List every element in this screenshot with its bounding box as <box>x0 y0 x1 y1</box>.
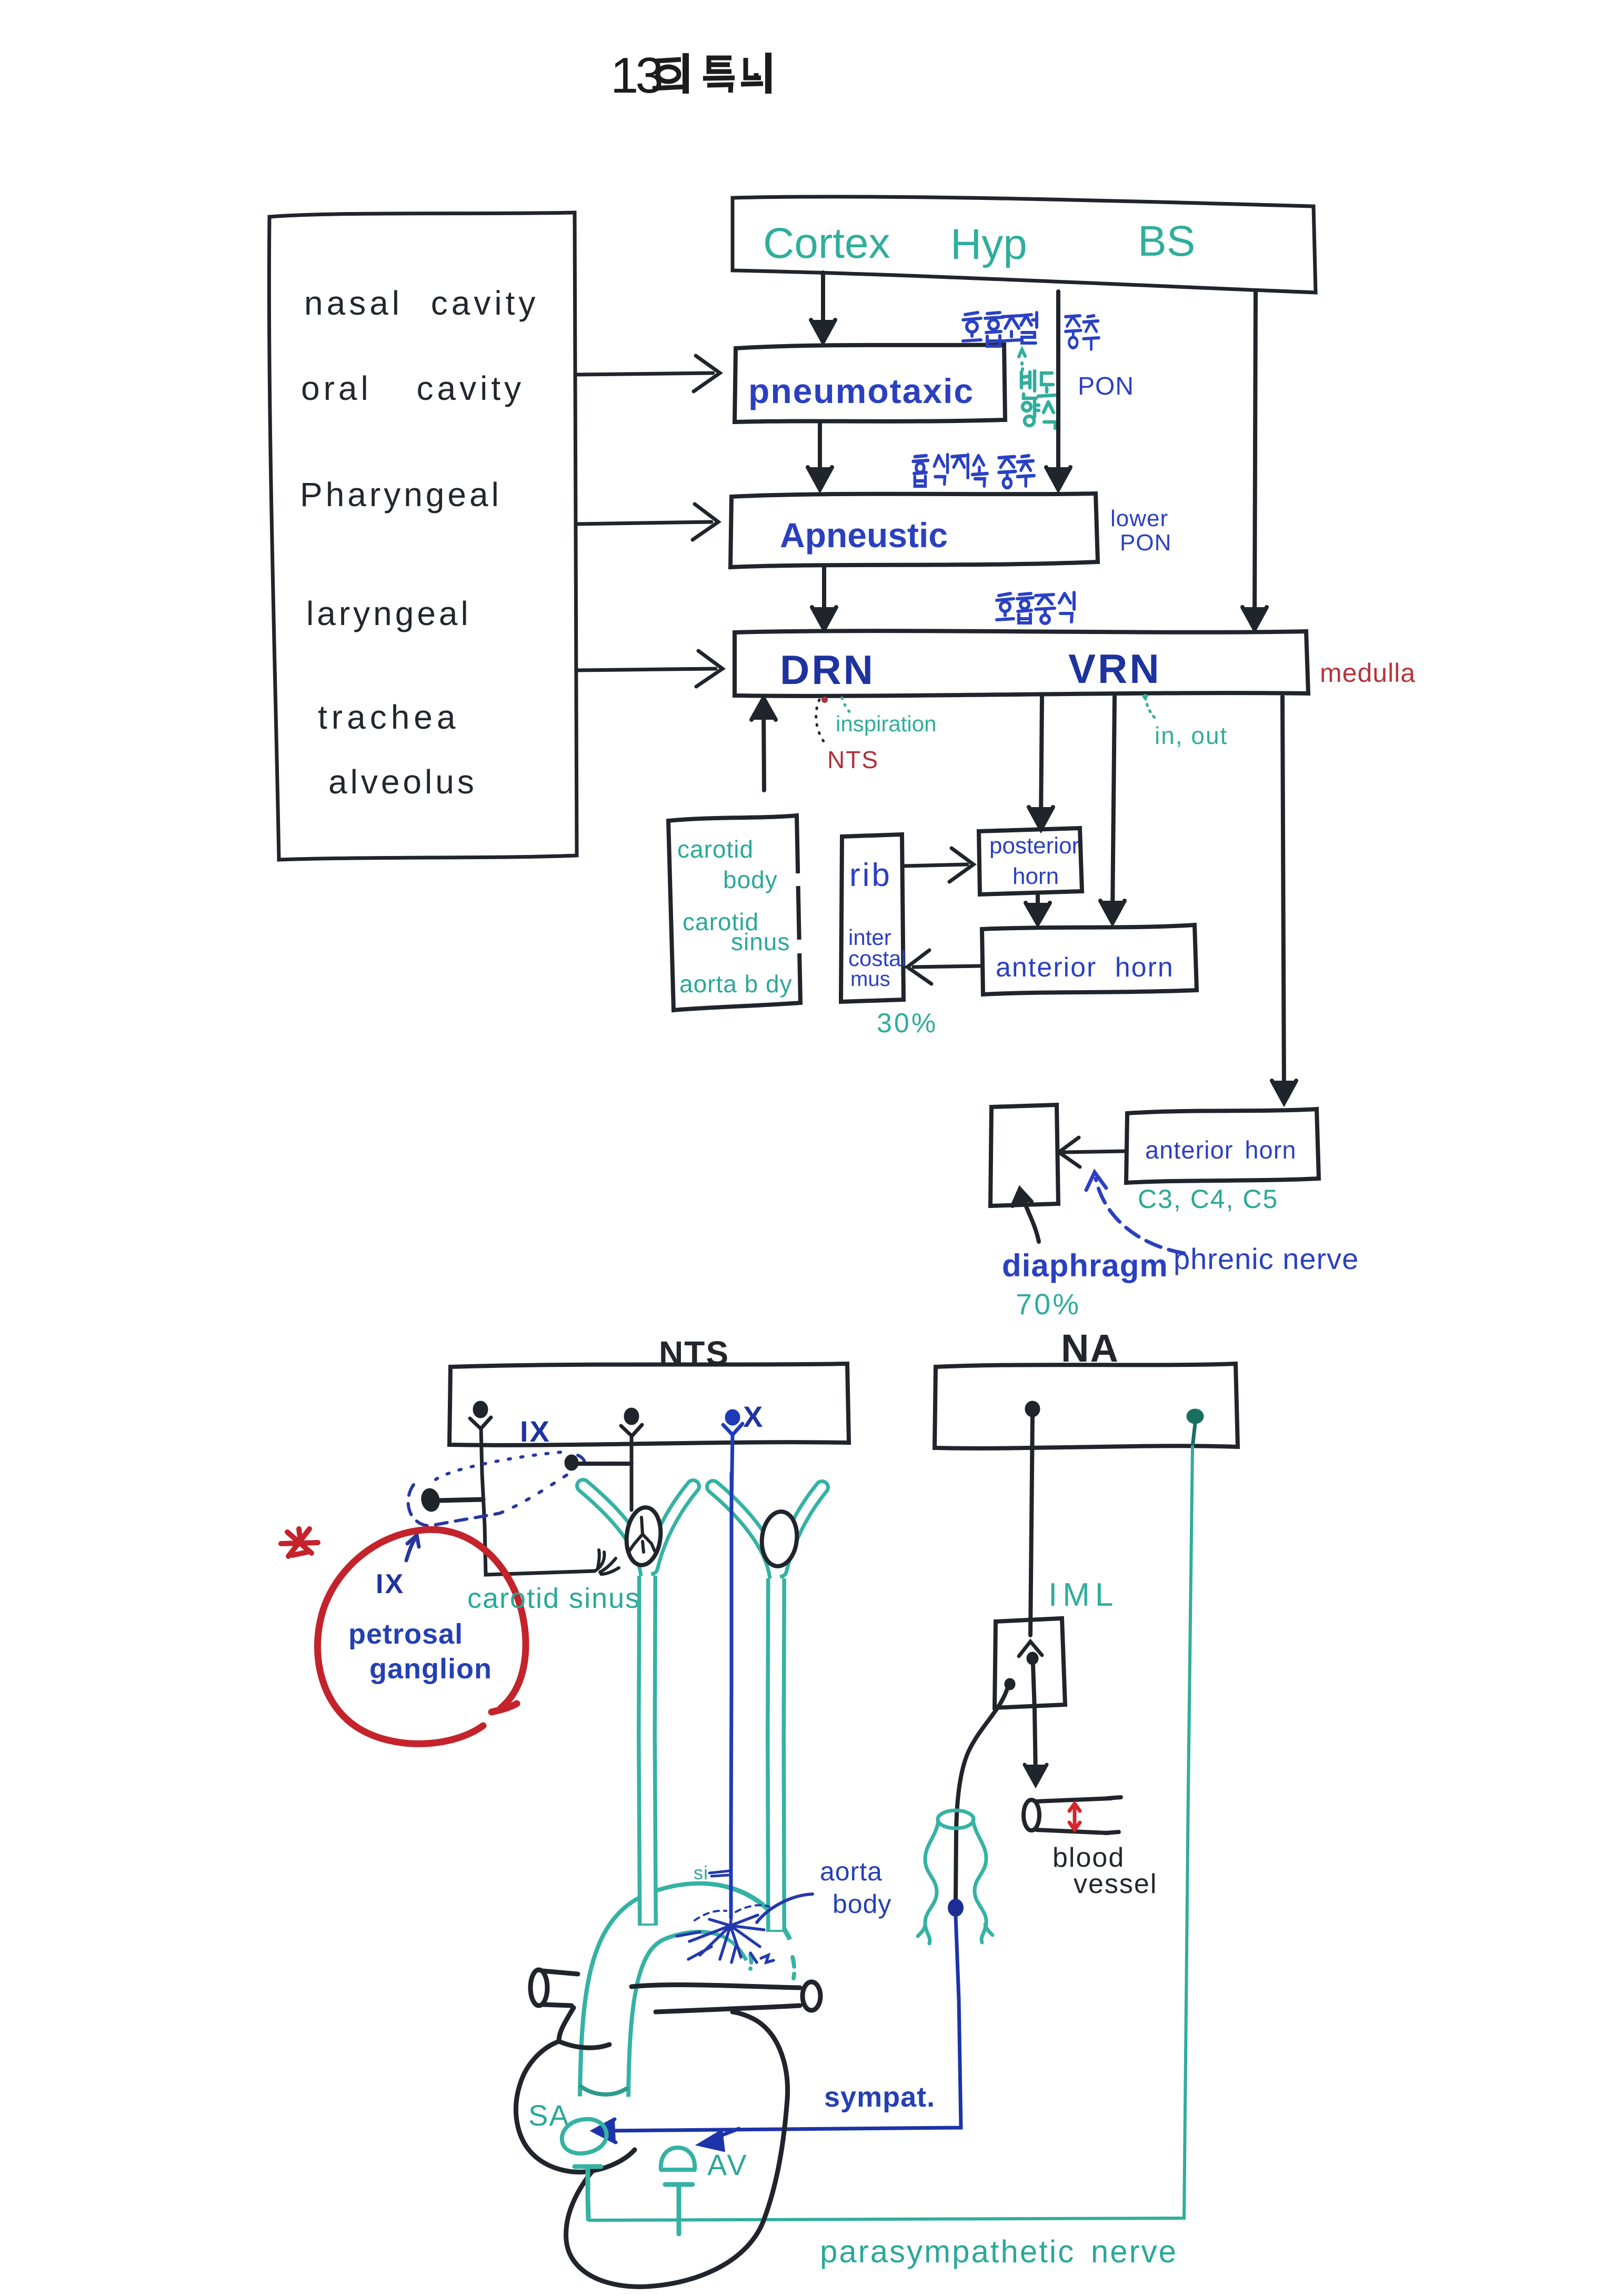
svg-text:VRN: VRN <box>1068 646 1161 692</box>
svg-text:PON: PON <box>1078 372 1134 400</box>
box: pneumotaxic <box>735 345 1005 422</box>
box: Cortex/Hyp/BS <box>733 197 1316 293</box>
teal parasympathetic descending line <box>589 1447 1192 2220</box>
blue ganglion dot on chain <box>948 1899 964 1917</box>
svg-text:laryngeal: laryngeal <box>306 595 472 632</box>
box: NTS <box>449 1364 849 1445</box>
dashes continuing descending aorta <box>750 1955 794 1978</box>
svg-text:aorta: aorta <box>820 1857 883 1886</box>
hangul 회 <box>653 53 686 94</box>
arrow: posterior to anterior horn <box>1026 894 1050 924</box>
box: posterior horn <box>979 828 1082 894</box>
teal sympathetic chain (beaded tube) <box>918 1810 993 1943</box>
label: 양식 (teal korean) <box>1022 401 1058 428</box>
label: 빈도 (teal korean) <box>1021 371 1056 398</box>
svg-text:Hyp: Hyp <box>950 220 1027 268</box>
arrow: left box to Apneustic <box>577 504 718 540</box>
box: NA <box>935 1364 1238 1448</box>
red star <box>281 1529 318 1556</box>
right carotid artery (teal tube) <box>713 1487 822 1932</box>
arrow: BS to VRN box <box>1242 293 1267 629</box>
label: 호흡중식 (blue korean) above DRN <box>997 592 1074 623</box>
arrow: Hyp to Apneustic <box>1046 291 1070 489</box>
svg-text:mus: mus <box>850 968 890 991</box>
arrow: Apneustic to DRN <box>812 567 836 629</box>
svg-text:trachea: trachea <box>318 698 459 736</box>
svg-text:horn: horn <box>1013 863 1059 889</box>
box: diaphragm (empty) <box>990 1105 1058 1206</box>
svg-text:oral cavity: oral cavity <box>301 369 525 407</box>
box: carotid body/sinus/aorta list <box>668 815 800 1010</box>
AV dome + text <box>661 2148 695 2170</box>
arrow: pneumotaxic to Apneustic <box>808 422 832 489</box>
svg-text:anterior horn: anterior horn <box>996 952 1174 983</box>
dashed blue ellipse (IX nerve loop) <box>408 1452 585 1526</box>
box: DRN / VRN (medulla) <box>735 631 1308 696</box>
blue pointer arrow from label to ganglion <box>406 1535 419 1560</box>
svg-text:anterior horn: anterior horn <box>1145 1136 1297 1164</box>
box: rib / intercostal mus <box>841 834 904 1002</box>
svg-text:13: 13 <box>610 47 661 104</box>
arrow: VRN to posterior horn <box>1029 697 1053 829</box>
svg-text:si: si <box>694 1862 708 1884</box>
svg-text:IX: IX <box>520 1415 551 1448</box>
IML inner neuron (arrowhead + dot + axon down) <box>1019 1642 1047 1785</box>
svg-text:PON: PON <box>1120 530 1171 556</box>
arrow: Cortex to pneumotaxic <box>811 273 835 342</box>
svg-text:DRN: DRN <box>780 647 875 693</box>
svg-text:petrosal: petrosal <box>348 1618 463 1650</box>
heart outline (black) <box>516 2008 787 2287</box>
svg-text:alveolus: alveolus <box>328 763 477 801</box>
line: VRN to lower anterior horn <box>1272 697 1296 1103</box>
arrow: diaphragm label up into box <box>1013 1189 1039 1242</box>
aorta tube end arc <box>581 2087 626 2094</box>
svg-text:phrenic nerve: phrenic nerve <box>1174 1242 1359 1275</box>
arrow: rib to posterior horn <box>904 848 974 882</box>
svg-text:carotid sinus: carotid sinus <box>467 1583 640 1614</box>
svg-text:Cortex: Cortex <box>763 219 890 267</box>
dashed teal pointer + inspiration <box>842 698 854 716</box>
black oval: carotid body left (with nerve ending) <box>624 1472 663 1567</box>
black blob (petrosal ganglion) <box>419 1487 483 1513</box>
neuron 2 in NTS <box>621 1409 642 1510</box>
teal dotted tick <box>1019 349 1025 370</box>
black oval: carotid body right (empty) <box>759 1510 800 1568</box>
aortic arch (teal hollow band) <box>604 1908 769 2099</box>
svg-text:sinus: sinus <box>731 928 790 955</box>
svg-text:SA: SA <box>528 2099 570 2132</box>
svg-text:aorta b dy: aorta b dy <box>679 970 793 998</box>
label: 호흡조절 (blue korean) <box>963 313 1037 346</box>
vagus nerve X descending (blue) <box>731 1473 731 1918</box>
svg-text:Pharyngeal: Pharyngeal <box>300 476 502 513</box>
arrow: VRN to anterior horn <box>1100 697 1125 923</box>
svg-text:posterior: posterior <box>989 833 1079 859</box>
hangul 특 <box>703 58 735 93</box>
arrow: anterior horn to diaphragm <box>1059 1137 1126 1167</box>
svg-text:NTS: NTS <box>827 746 879 773</box>
svg-text:costal: costal <box>848 946 906 971</box>
arrow: left box to DRN <box>577 651 723 687</box>
svg-text:lower: lower <box>1110 506 1168 531</box>
svg-text:rib: rib <box>849 857 892 893</box>
neuron 1 in NTS (soma+dendrite+axon) <box>470 1403 595 1575</box>
svg-text:Apneustic: Apneustic <box>780 516 948 555</box>
svg-text:pneumotaxic: pneumotaxic <box>748 371 974 410</box>
teal T below AV <box>665 2184 693 2234</box>
svg-text:sympat.: sympat. <box>824 2081 935 2113</box>
black dot on ellipse (synapse to neuron2) <box>565 1455 631 1471</box>
svg-text:X: X <box>743 1400 764 1433</box>
dotted black pointer + NTS red <box>816 700 827 746</box>
blue sympathetic postganglionic line down and to SA <box>594 1916 961 2150</box>
aorta body scribble (blue nerve plexus) <box>677 1905 774 1962</box>
label: 중추 (blue korean) <box>1065 316 1099 349</box>
arrow: anterior horn to intercostal <box>907 950 981 984</box>
NA teal dot + stem <box>1187 1409 1204 1447</box>
svg-text:vessel: vessel <box>1074 1869 1157 1899</box>
box: Apneustic <box>730 494 1098 567</box>
svg-text:in, out: in, out <box>1155 722 1228 749</box>
text: carotid body <box>798 873 800 953</box>
svg-text:IML: IML <box>1048 1577 1118 1613</box>
NA black dot + stem <box>1025 1401 1040 1635</box>
red double arrow in vessel <box>1069 1804 1080 1830</box>
svg-text:30%: 30% <box>877 1008 938 1039</box>
hangul 뇌 <box>741 53 768 94</box>
svg-text:medulla: medulla <box>1320 658 1416 688</box>
dashed teal tick under VRN + in,out <box>1145 698 1156 719</box>
svg-text:diaphragm: diaphragm <box>1002 1248 1168 1283</box>
box: anterior horn <box>982 925 1197 994</box>
teal T below SA <box>575 2167 601 2219</box>
box: airway list (left) <box>269 213 577 860</box>
black tube right (pulmonary artery, open end) <box>631 1982 820 2012</box>
red circle around petrosal ganglion <box>317 1529 526 1744</box>
svg-text:BS: BS <box>1138 217 1195 265</box>
svg-text:inspiration: inspiration <box>836 711 936 736</box>
svg-text:70%: 70% <box>1016 1287 1081 1321</box>
left carotid artery (teal tube) <box>583 1486 693 1926</box>
box: IML <box>995 1618 1065 1708</box>
arrow: NTS input up into DRN <box>751 698 776 790</box>
svg-text:parasympathetic nerve: parasympathetic nerve <box>820 2234 1178 2269</box>
svg-text:body: body <box>833 1889 891 1919</box>
svg-text:carotid: carotid <box>677 835 754 863</box>
title text "13회 특뇌" <box>610 47 768 104</box>
svg-text:ganglion: ganglion <box>369 1653 492 1685</box>
nerve ending scribble (carotid sinus) <box>595 1550 619 1574</box>
svg-text:body: body <box>723 866 778 893</box>
svg-text:AV: AV <box>707 2148 749 2181</box>
neuron 3 (vagus, blue) <box>723 1411 743 1505</box>
label: 흡식지속 중추 (blue korean) <box>913 455 1034 488</box>
black tube top-left (SVC) <box>530 1970 578 2006</box>
svg-text:IX: IX <box>376 1569 405 1599</box>
blood vessel (tube) <box>1024 1797 1121 1833</box>
dashed blue: phrenic nerve curve <box>1096 1179 1184 1253</box>
IML second dot + sympathetic preganglionic curve <box>956 1678 1015 1900</box>
svg-text:nasal cavity: nasal cavity <box>304 284 539 322</box>
svg-text:C3, C4, C5: C3, C4, C5 <box>1138 1184 1278 1214</box>
box: anterior horn (lower) <box>1126 1109 1319 1183</box>
arrow: left box to pneumotaxic <box>577 356 720 391</box>
